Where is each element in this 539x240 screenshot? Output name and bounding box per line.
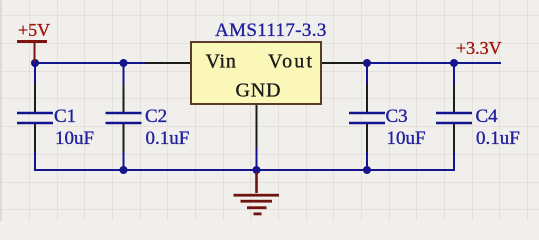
svg-text:C2: C2 <box>145 106 167 127</box>
svg-text:+5V: +5V <box>18 20 50 40</box>
svg-text:C4: C4 <box>476 106 499 127</box>
svg-text:0.1uF: 0.1uF <box>476 128 520 149</box>
svg-text:C1: C1 <box>54 106 76 127</box>
svg-text:+3.3V: +3.3V <box>456 38 502 58</box>
svg-text:GND: GND <box>236 80 282 102</box>
svg-text:Vout: Vout <box>268 51 314 73</box>
svg-text:10uF: 10uF <box>387 128 426 149</box>
svg-text:Vin: Vin <box>206 51 237 73</box>
svg-text:AMS1117-3.3: AMS1117-3.3 <box>215 20 327 41</box>
svg-text:C3: C3 <box>386 106 408 127</box>
svg-text:0.1uF: 0.1uF <box>146 128 190 149</box>
svg-text:10uF: 10uF <box>55 128 94 149</box>
